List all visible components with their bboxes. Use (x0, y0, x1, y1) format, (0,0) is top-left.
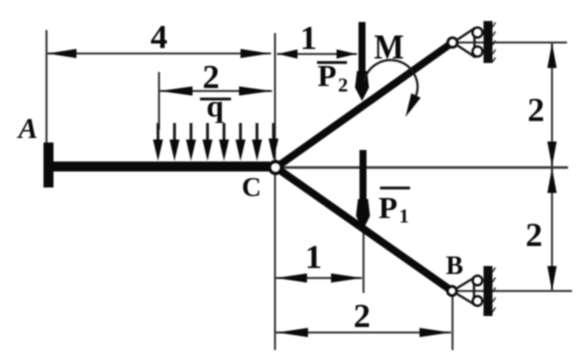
extension line left of q span (158, 72, 160, 130)
svg-text:1: 1 (305, 239, 322, 276)
dimension label 2 over q (203, 59, 220, 96)
svg-text:2: 2 (526, 217, 543, 254)
force P1 arrow (356, 150, 370, 230)
beam AC (48, 162, 270, 172)
fixed support wall at A (44, 143, 54, 188)
right vertical dimension line (551, 43, 553, 292)
upper support rollers (473, 28, 483, 57)
dimension 1 line (top) (277, 49, 357, 58)
member C to B (276, 168, 452, 292)
dimension label 1 (top) (300, 20, 317, 57)
svg-text:2: 2 (528, 92, 545, 129)
label B (446, 251, 463, 280)
label A (16, 113, 37, 145)
right dim arrows lower pair (547, 168, 556, 291)
label P1 with overbar (379, 188, 411, 228)
moment arc arrow (364, 60, 421, 117)
svg-text:2: 2 (338, 75, 348, 97)
svg-text:4: 4 (151, 19, 168, 56)
svg-text:A: A (16, 113, 37, 145)
dimension label 1 (bottom) (305, 239, 322, 276)
dimension label 2 (lower right) (526, 217, 543, 254)
extension line below P1 (363, 222, 365, 293)
label C (242, 172, 262, 202)
svg-text:1: 1 (300, 20, 317, 57)
svg-text:B: B (446, 251, 463, 280)
svg-text:1: 1 (399, 206, 409, 228)
horizontal reference line through C (283, 166, 568, 169)
svg-text:2: 2 (354, 298, 371, 335)
vertical extension line through C (274, 33, 276, 350)
pin circle at upper support (448, 38, 458, 48)
member C to upper support (276, 43, 453, 168)
dimension 1 line (bottom) (276, 273, 362, 282)
dimension label 2 (upper right) (528, 92, 545, 129)
svg-text:P: P (318, 58, 337, 93)
svg-text:P: P (379, 190, 398, 225)
hinge circle at C (270, 162, 282, 174)
dimension 2 line (bottom) (276, 328, 451, 337)
extension line below B (452, 296, 454, 350)
dimension label 2 (bottom) (354, 298, 371, 335)
bottom support reference line (455, 290, 572, 292)
right dim arrows upper pair (547, 43, 556, 167)
upper roller support triangle (456, 27, 475, 58)
extension line at A (46, 30, 48, 143)
lower support rollers (473, 276, 483, 306)
label P2 with overbar (317, 58, 348, 97)
top support reference line (456, 42, 567, 44)
distributed load q arrows (153, 123, 279, 161)
label q with overbar (200, 89, 231, 124)
svg-text:C: C (242, 172, 262, 202)
svg-text:q: q (206, 89, 223, 124)
dimension label 4 (151, 19, 168, 56)
upper support wall (484, 21, 496, 63)
dimension 4 line (47, 49, 271, 58)
lower support wall (484, 266, 496, 316)
moment label M (374, 28, 404, 67)
dimension 2 line over q (160, 86, 273, 95)
lower roller support triangle (456, 277, 475, 306)
pin circle at B (447, 286, 456, 295)
force P2 arrow (355, 22, 369, 101)
